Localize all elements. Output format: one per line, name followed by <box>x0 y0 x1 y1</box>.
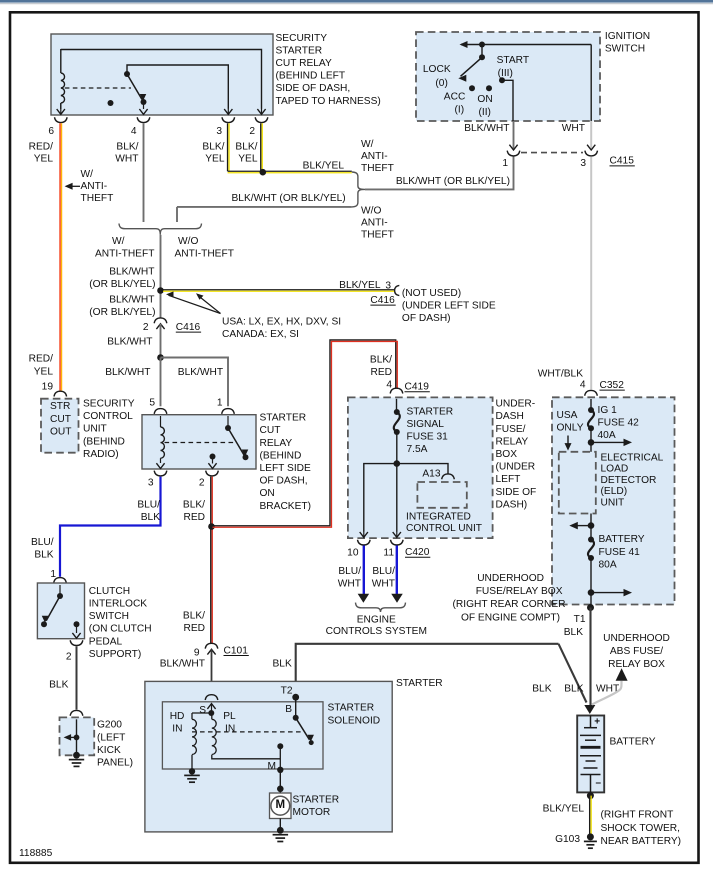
pin 4 connector <box>137 117 150 122</box>
wire contact to M terminal <box>279 746 281 770</box>
wire fuse 42 down <box>590 428 592 525</box>
wire from START contact down (BLK/WHT) <box>502 80 513 121</box>
svg-text:UNDERHOOD: UNDERHOOD <box>477 573 544 584</box>
ground G200 <box>69 752 84 767</box>
wire BLU/BLK relay pin 3 to clutch switch <box>60 477 161 577</box>
clutch switch pin 2 connector <box>70 640 83 645</box>
BLK/WHT wire C416 to junction <box>160 324 162 358</box>
fuse 31 value label <box>407 406 454 455</box>
starter cut relay pin 5 connector <box>154 409 167 422</box>
HD IN coil (hold-in winding) <box>192 713 212 755</box>
svg-text:LOAD: LOAD <box>601 464 629 475</box>
svg-text:FUSE/RELAY BOX: FUSE/RELAY BOX <box>476 586 563 597</box>
svg-text:BLK/WHT (OR BLK/YEL): BLK/WHT (OR BLK/YEL) <box>232 193 346 204</box>
svg-text:YEL: YEL <box>34 154 54 165</box>
electrical load detector (ELD) unit box <box>559 452 596 514</box>
relay switch pivot from pin 1 <box>225 416 231 431</box>
wire to battery fuse <box>590 526 592 540</box>
W/O ANTI-THEFT label (right branch) <box>175 236 234 260</box>
starter assembly box <box>145 681 392 832</box>
svg-text:3: 3 <box>385 280 391 291</box>
svg-text:DASH): DASH) <box>496 499 528 510</box>
LOCK position label <box>423 64 451 89</box>
svg-text:C420: C420 <box>405 547 430 558</box>
svg-text:WHT: WHT <box>562 123 585 134</box>
starter motor M <box>270 793 292 819</box>
wire BLK/WHT from relay pin 4 down to merge brace <box>143 123 145 222</box>
svg-text:C101: C101 <box>224 645 249 656</box>
svg-text:OF DASH,: OF DASH, <box>260 476 308 487</box>
clutch switch arm <box>41 596 60 627</box>
svg-text:B: B <box>285 704 292 715</box>
svg-text:FUSE 41: FUSE 41 <box>599 547 641 558</box>
START position label <box>497 55 529 79</box>
security starter cut relay box <box>51 34 273 115</box>
ABS fuse/relay box arrow <box>616 668 628 681</box>
merge brace w/ and w/o anti-theft into ignition feed <box>352 172 365 207</box>
svg-text:YEL: YEL <box>205 154 225 165</box>
svg-text:M: M <box>276 799 286 811</box>
svg-text:ENGINE: ENGINE <box>357 614 396 625</box>
svg-text:W/: W/ <box>361 139 374 150</box>
svg-text:ABS FUSE/: ABS FUSE/ <box>610 646 663 657</box>
svg-text:(I): (I) <box>455 105 465 116</box>
svg-text:C416: C416 <box>370 295 395 306</box>
BLK/WHT wire label (pin 4) <box>115 142 138 165</box>
pin 2 connector <box>206 471 219 476</box>
svg-text:C415: C415 <box>610 156 635 167</box>
wire WHT/BLK from C415 pin 3 to C352 <box>590 157 592 390</box>
wire fuse 41 down to T1 <box>590 558 592 608</box>
ignition switch box <box>416 32 600 121</box>
svg-text:S: S <box>199 705 206 716</box>
wire starter motor to ground <box>279 819 281 831</box>
starter solenoid title <box>328 703 381 727</box>
ACC position contact <box>469 85 475 91</box>
svg-text:3: 3 <box>216 126 222 137</box>
starter motor label <box>293 794 340 818</box>
svg-text:(UNDER: (UNDER <box>496 462 536 473</box>
svg-text:M: M <box>268 761 277 772</box>
svg-text:RELAY: RELAY <box>260 438 293 449</box>
wire BLU/WHT pin 10 to engine controls <box>358 546 370 603</box>
svg-text:ANTI-THEFT: ANTI-THEFT <box>175 249 234 260</box>
USA/CANADA application pointer arrows <box>166 291 221 313</box>
svg-text:W/O: W/O <box>361 205 381 216</box>
BLU/WHT wire label (pin 11) <box>372 566 395 590</box>
relay switch arm (security relay) <box>124 71 147 105</box>
security control unit STR CUT OUT box <box>41 399 79 453</box>
clutch switch pivot <box>57 585 63 599</box>
svg-text:OF DASH): OF DASH) <box>402 313 451 324</box>
svg-text:(BEHIND: (BEHIND <box>260 450 302 461</box>
svg-text:SWITCH: SWITCH <box>89 611 129 622</box>
svg-text:USA: USA <box>557 410 578 421</box>
svg-text:DASH: DASH <box>496 411 524 422</box>
svg-text:FUSE/: FUSE/ <box>496 424 526 435</box>
wire BLK clutch switch to G200 <box>76 646 78 709</box>
battery <box>577 716 604 793</box>
svg-text:2: 2 <box>143 322 149 333</box>
clutch switch pin 1 connector <box>54 578 67 591</box>
wire WHT battery to ABS fuse box <box>592 681 622 705</box>
svg-text:10: 10 <box>347 548 359 559</box>
svg-text:BLK: BLK <box>564 627 583 638</box>
solenoid output contact <box>277 743 283 749</box>
wire BLK/WHT junction to relay pin 1 <box>161 358 229 407</box>
wire into IG1 fuse <box>590 399 592 410</box>
svg-text:BOX: BOX <box>496 449 518 460</box>
svg-text:1: 1 <box>502 158 508 169</box>
W/ ANTI-THEFT branch label (right brace) <box>361 139 394 174</box>
battery positive feed arrowhead <box>584 705 595 714</box>
svg-text:3: 3 <box>580 158 586 169</box>
T1 label <box>564 614 586 638</box>
wire to A13 integrated control unit <box>397 464 448 474</box>
svg-text:RED/: RED/ <box>29 142 54 153</box>
under-dash fuse box title <box>496 399 537 511</box>
pin 2 connector <box>255 117 268 122</box>
svg-text:ANTI-: ANTI- <box>81 181 108 192</box>
svg-text:IGNITION: IGNITION <box>605 31 650 42</box>
(NOT USED) annotation <box>402 288 496 324</box>
battery negative terminal <box>587 792 594 799</box>
wire BLU/WHT pin 11 to engine controls <box>391 546 403 603</box>
svg-text:BLK/WHT: BLK/WHT <box>464 123 509 134</box>
svg-text:ONLY: ONLY <box>557 423 584 434</box>
svg-text:CONTROLS SYSTEM: CONTROLS SYSTEM <box>326 626 427 637</box>
svg-text:SOLENOID: SOLENOID <box>328 715 381 726</box>
svg-text:WHT: WHT <box>338 579 361 590</box>
svg-text:STARTER: STARTER <box>328 703 375 714</box>
svg-text:A13: A13 <box>422 468 440 479</box>
G103 location note <box>601 810 682 847</box>
W/ ANTI-THEFT tag arrow (red/yel wire) <box>65 183 80 190</box>
engine controls system label <box>326 614 427 637</box>
clutch interlock switch title <box>89 586 152 660</box>
svg-text:4: 4 <box>580 380 586 391</box>
svg-text:RED: RED <box>183 512 205 523</box>
svg-text:UNDERHOOD: UNDERHOOD <box>603 633 670 644</box>
underhood fuse box title <box>452 573 565 623</box>
HD coil ground wire <box>191 755 193 772</box>
svg-text:RED/: RED/ <box>29 354 54 365</box>
security control unit title <box>83 399 135 460</box>
svg-text:(BEHIND LEFT: (BEHIND LEFT <box>276 71 346 82</box>
svg-text:UNIT: UNIT <box>83 424 107 435</box>
ON position label <box>477 94 492 118</box>
wire BLK/WHT C101 to starter solenoid S <box>211 649 213 694</box>
junction: BLK/YEL branch to C416 pin 3 <box>157 287 164 294</box>
solenoid actuator dashed link <box>192 731 301 733</box>
svg-text:C419: C419 <box>405 382 430 393</box>
svg-text:PANEL): PANEL) <box>97 758 133 769</box>
svg-text:TAPED TO HARNESS): TAPED TO HARNESS) <box>276 96 381 107</box>
svg-text:BLK/YEL: BLK/YEL <box>543 804 585 815</box>
svg-text:G200: G200 <box>97 720 122 731</box>
svg-text:ON: ON <box>260 488 275 499</box>
svg-text:CONTROL: CONTROL <box>83 411 133 422</box>
starter cut relay box <box>142 415 256 469</box>
svg-text:BRACKET): BRACKET) <box>260 501 312 512</box>
relay actuator dashed link <box>65 87 131 89</box>
combined BLK/WHT wire down from brace <box>160 235 162 318</box>
svg-text:BLK: BLK <box>532 683 551 694</box>
svg-text:LEFT: LEFT <box>496 474 521 485</box>
svg-text:NEAR BATTERY): NEAR BATTERY) <box>601 836 682 847</box>
connector C415 pin 3 <box>585 145 598 156</box>
connector C101 pin 9 <box>205 643 218 654</box>
connector C416 pin 2 <box>154 318 167 329</box>
fuse 41 (battery, 80A) <box>588 537 594 562</box>
svg-text:BLK: BLK <box>141 512 160 523</box>
svg-text:(BEHIND: (BEHIND <box>83 436 125 447</box>
START position contact <box>499 77 505 83</box>
fuse 41 labels <box>599 534 645 570</box>
svg-text:PEDAL: PEDAL <box>89 636 123 647</box>
svg-text:CUT: CUT <box>260 425 281 436</box>
svg-text:(NOT USED): (NOT USED) <box>402 288 461 299</box>
svg-text:5: 5 <box>149 397 155 408</box>
wire BLK T1 to battery <box>589 608 591 706</box>
G200 internal wire <box>76 719 78 755</box>
svg-text:3: 3 <box>148 478 154 489</box>
svg-text:INTERLOCK: INTERLOCK <box>89 599 148 610</box>
connector C415 pin 1 <box>507 145 520 156</box>
junction: split to relay pins 5 and 1 <box>157 354 164 361</box>
node T1 <box>587 604 594 611</box>
ELD unit title <box>601 452 664 508</box>
svg-text:UNIT: UNIT <box>601 498 625 509</box>
svg-text:ACC: ACC <box>444 92 466 103</box>
svg-text:SWITCH: SWITCH <box>605 44 645 55</box>
connector C352 pin 4 <box>585 390 598 404</box>
svg-text:ANTI-: ANTI- <box>361 217 388 228</box>
BLK/YEL label (pin 3) <box>202 142 224 165</box>
ground (starter motor) <box>273 827 289 842</box>
integrated control unit box <box>417 482 466 508</box>
ON position contact <box>486 85 492 91</box>
svg-text:ELECTRICAL: ELECTRICAL <box>601 452 664 463</box>
svg-text:ANTI-THEFT: ANTI-THEFT <box>95 249 154 260</box>
svg-text:DETECTOR: DETECTOR <box>601 475 657 486</box>
svg-text:2: 2 <box>66 651 72 662</box>
svg-text:BLK/WHT: BLK/WHT <box>160 659 205 670</box>
BLK/WHT (OR BLK/YEL) wire label (above junction) <box>89 266 155 290</box>
svg-text:LEFT SIDE: LEFT SIDE <box>260 463 312 474</box>
BLK/RED wire label (upper) <box>183 499 205 523</box>
ignition switch pivot <box>479 45 485 61</box>
svg-text:7.5A: 7.5A <box>407 444 428 455</box>
PL IN label <box>223 711 236 735</box>
svg-text:6: 6 <box>48 126 54 137</box>
svg-text:BLK/WHT: BLK/WHT <box>109 295 154 306</box>
svg-text:(OR BLK/YEL): (OR BLK/YEL) <box>89 307 155 318</box>
wire WHT inside ignition switch <box>590 45 592 122</box>
wire BLK/WHT (OR BLK/YEL) horizontal (w/o anti-theft) <box>177 207 352 222</box>
svg-text:1: 1 <box>50 569 56 580</box>
svg-text:IG 1: IG 1 <box>598 405 618 416</box>
security control unit pin 19 connector <box>54 391 67 396</box>
svg-text:SUPPORT): SUPPORT) <box>89 649 141 660</box>
node M <box>277 767 283 773</box>
BLU/BLK wire label (upper) <box>137 499 160 523</box>
svg-text:–: – <box>596 778 602 789</box>
ground G103 <box>584 833 597 848</box>
svg-text:THEFT: THEFT <box>361 229 394 240</box>
W/O ANTI-THEFT branch label (right brace) <box>361 205 394 240</box>
ACC position label <box>444 92 466 116</box>
top page accent bar <box>0 0 713 3</box>
svg-text:YEL: YEL <box>34 366 54 377</box>
svg-text:BLK/: BLK/ <box>116 142 138 153</box>
svg-text:SHOCK TOWER,: SHOCK TOWER, <box>601 823 680 834</box>
starter cut relay pin 1 connector <box>222 409 235 422</box>
svg-text:BLK/: BLK/ <box>183 499 205 510</box>
BLU/BLK wire label (lower) <box>31 537 54 561</box>
W/ ANTI-THEFT tag text <box>81 169 114 204</box>
svg-text:80A: 80A <box>599 559 617 570</box>
C415 gang dashes <box>521 152 583 154</box>
svg-text:BLK/WHT (OR BLK/YEL): BLK/WHT (OR BLK/YEL) <box>396 176 510 187</box>
svg-text:(0): (0) <box>435 78 447 89</box>
svg-text:BATTERY: BATTERY <box>599 534 645 545</box>
RED/YEL wire label (bottom) <box>29 354 54 378</box>
junction: IG1 feed tap <box>588 439 632 447</box>
relay output contact to pin 2 <box>208 454 216 469</box>
svg-text:W/O: W/O <box>178 236 198 247</box>
wire BLK/YEL from relay pin 3 <box>228 123 230 171</box>
svg-text:USA: LX, EX, HX, DXV, SI: USA: LX, EX, HX, DXV, SI <box>222 317 341 328</box>
svg-text:BLK: BLK <box>273 659 292 670</box>
BLK/WHT (OR BLK/YEL) wire label (below junction) <box>89 295 155 319</box>
merged BLK/WHT (OR BLK/YEL) wire to ignition switch pin 1 <box>365 157 514 190</box>
S terminal junction <box>208 704 214 716</box>
node T2 <box>292 694 299 701</box>
pin 3 connector <box>222 117 235 122</box>
svg-text:2: 2 <box>199 478 205 489</box>
svg-text:CANADA: EX, SI: CANADA: EX, SI <box>222 329 299 340</box>
junction: below ELD with left arrow <box>569 522 594 530</box>
svg-text:STARTER: STARTER <box>260 413 307 424</box>
svg-text:(ON CLUTCH: (ON CLUTCH <box>89 624 152 635</box>
svg-text:(UNDER LEFT SIDE: (UNDER LEFT SIDE <box>402 300 496 311</box>
svg-text:40A: 40A <box>598 430 616 441</box>
wire WHT ignition to C415 pin 3 <box>590 121 592 150</box>
svg-text:RELAY BOX: RELAY BOX <box>608 659 665 670</box>
svg-text:WHT/BLK: WHT/BLK <box>538 368 583 379</box>
svg-text:BLK/WHT: BLK/WHT <box>109 266 154 277</box>
svg-text:UNDER-: UNDER- <box>496 399 536 410</box>
svg-text:1: 1 <box>217 397 223 408</box>
relay coil (security relay) <box>57 49 65 114</box>
pin 3 connector <box>154 471 167 476</box>
BLU/WHT wire label (pin 10) <box>338 566 361 590</box>
svg-text:T2: T2 <box>281 685 293 696</box>
svg-text:BLU/: BLU/ <box>137 499 160 510</box>
svg-text:(OR BLK/YEL): (OR BLK/YEL) <box>89 279 155 290</box>
relay switch arm (starter cut relay) <box>228 428 249 460</box>
wire BLK/RED relay pin 2 down to junction <box>210 477 212 644</box>
BLK/RED wire label (C419 branch) <box>370 354 392 378</box>
svg-text:2: 2 <box>249 126 255 137</box>
relay coil (starter cut relay) <box>156 416 164 469</box>
svg-text:SIDE OF: SIDE OF <box>496 487 537 498</box>
svg-text:4: 4 <box>131 126 137 137</box>
svg-text:4: 4 <box>386 380 392 391</box>
junction: fuse 31 output <box>394 460 401 467</box>
svg-text:11: 11 <box>383 548 394 559</box>
svg-text:LOCK: LOCK <box>423 64 451 75</box>
svg-text:BLU/: BLU/ <box>31 537 54 548</box>
integrated control unit title <box>406 511 482 534</box>
svg-text:BLK/: BLK/ <box>235 142 257 153</box>
PL coil wire to M terminal <box>212 755 280 759</box>
G200 branch arrow <box>64 734 80 741</box>
wire M terminal to starter motor <box>277 770 284 793</box>
connector C420 pin 10 <box>358 540 371 545</box>
svg-text:OF ENGINE COMPT): OF ENGINE COMPT) <box>461 612 560 623</box>
svg-text:STARTER: STARTER <box>276 45 323 56</box>
svg-text:BLK/: BLK/ <box>370 354 392 365</box>
svg-text:(II): (II) <box>479 107 491 118</box>
clutch interlock switch box <box>37 583 84 639</box>
svg-text:STR: STR <box>50 401 70 412</box>
BLK/RED wire label (lower) <box>183 611 205 635</box>
svg-text:SIGNAL: SIGNAL <box>407 419 445 430</box>
svg-text:W/: W/ <box>112 236 125 247</box>
svg-text:IN: IN <box>225 724 235 735</box>
security relay title <box>276 33 381 107</box>
PL IN coil (pull-in winding) <box>212 713 216 755</box>
svg-text:CLUTCH: CLUTCH <box>89 586 130 597</box>
wire RED/YEL from pin 6 to security control unit <box>60 123 62 390</box>
svg-text:ON: ON <box>477 94 492 105</box>
relay internal wire: coil top to pin 2 <box>61 50 266 115</box>
connector A13 <box>442 474 455 489</box>
svg-text:BLK/: BLK/ <box>183 611 205 622</box>
wire BLK/YEL battery to G103 <box>589 796 591 835</box>
wire BLK/YEL from relay pin 2 <box>261 123 263 171</box>
svg-text:(ELD): (ELD) <box>601 486 628 497</box>
wire BLK starter T2 to battery (long run) <box>296 644 587 703</box>
wire fuse 31 to junction <box>396 432 398 464</box>
fuse 42 labels <box>598 405 640 441</box>
svg-text:BLK/: BLK/ <box>202 142 224 153</box>
C416 pin 3 stub connector (not used) <box>395 285 400 295</box>
svg-text:YEL: YEL <box>238 154 258 165</box>
USA/CANADA application note <box>222 317 341 341</box>
junction: BLK/RED splits to C419 feed <box>208 523 215 530</box>
ignition switch arm toward LOCK <box>458 57 482 82</box>
solenoid switch arm <box>296 718 314 745</box>
svg-text:BLU/: BLU/ <box>338 566 361 577</box>
USA ONLY note with arrow <box>557 410 584 451</box>
svg-text:(RIGHT FRONT: (RIGHT FRONT <box>601 810 674 821</box>
svg-text:118885: 118885 <box>19 848 53 859</box>
wire BLK/WHT ignition to C415 pin 1 <box>513 121 515 150</box>
svg-text:HD: HD <box>170 711 185 722</box>
pin 6 connector <box>55 117 68 122</box>
battery plates <box>580 716 601 793</box>
svg-text:OUT: OUT <box>50 426 72 437</box>
svg-text:INTEGRATED: INTEGRATED <box>406 511 471 522</box>
BLK/YEL label (pin 2) <box>235 142 257 165</box>
STR CUT OUT text <box>50 401 72 437</box>
ignition feed line with arrow <box>460 41 592 48</box>
svg-text:(III): (III) <box>498 68 513 79</box>
svg-text:BLK/WHT: BLK/WHT <box>105 367 150 378</box>
